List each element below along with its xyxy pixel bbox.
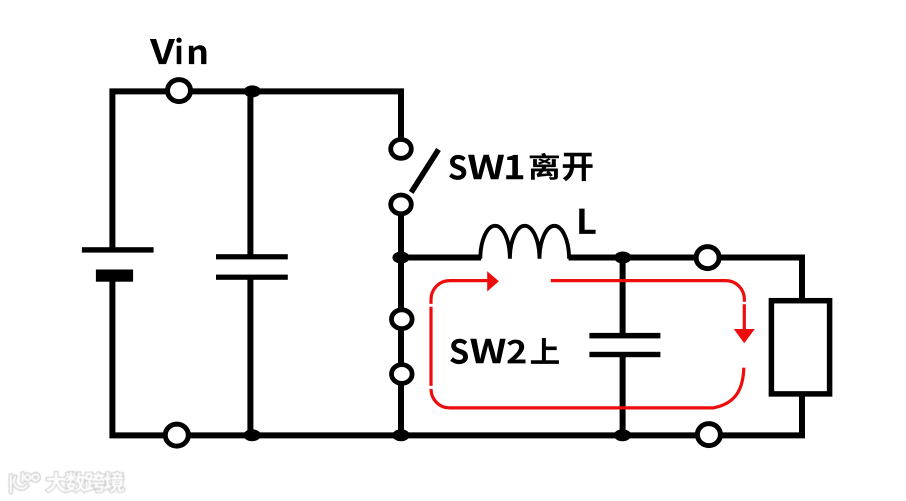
red current loop bottom-right and bottom segment [431,368,744,408]
red current loop top-left corner segment [431,281,487,304]
red current loop arrowhead down-pointing [734,329,755,343]
switch SW1 upper contact [391,140,412,159]
capacitor C1 top plate [216,254,288,259]
wire top rail (Vin node) with battery top lead and SW1 upper lead [112,91,401,249]
battery V1 negative plate [96,270,133,282]
red current loop arrowhead right-pointing [487,271,499,291]
label SW1离开 [449,153,593,182]
wire output capacitor upper lead [620,258,626,335]
node junction bottom rail / C1 [244,429,261,441]
inductor L winding [480,226,569,259]
terminal Vin+ [168,80,191,102]
node junction switch / inductor [392,252,409,264]
terminal output- [697,424,720,446]
watermark text 大数跨境 [46,472,124,492]
red current loop right side upper [743,304,746,329]
terminal Vin- [165,424,188,446]
switch SW2 lower contact [392,365,413,384]
capacitor C2 bottom plate [589,352,660,357]
wire input capacitor branch upper [247,91,253,256]
watermark logo K100 [11,473,39,492]
node junction bottom rail / SW2 [392,429,409,441]
switch SW2 upper contact [392,310,413,329]
wire output capacitor lower lead [620,353,626,435]
node junction top rail / C1 [244,85,261,97]
resistor R load box [771,301,829,394]
switch SW1 lower contact [391,195,412,214]
battery V1 positive plate [82,247,154,252]
terminal output+ [696,247,719,269]
wire SW1 lower lead / SW2 branch down to bottom rail [398,204,404,435]
red current loop top-right segment [551,281,745,302]
node junction bottom rail / C2 [614,429,631,441]
label Vin [150,38,207,65]
switch SW1 open arm [411,150,438,193]
wire bottom rail (ground return) with battery negative lead and load bottom lead [112,280,802,435]
wire mid rail from inductor to load top [569,258,803,301]
label L [579,209,595,234]
wire mid rail from switch node to inductor [401,255,481,261]
wire input capacitor branch lower [247,278,253,435]
capacitor C1 bottom plate [216,275,288,280]
label SW2上 [450,338,559,364]
red current loop left side [429,307,432,386]
node junction inductor / C2 [614,252,631,264]
capacitor C2 top plate [589,333,660,339]
